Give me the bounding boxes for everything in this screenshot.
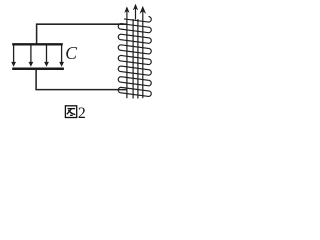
coil field line 2 <box>132 19 134 99</box>
capacitor C top plate <box>12 43 63 45</box>
coil turn 1 <box>124 17 151 23</box>
capacitor C bottom plate <box>12 67 64 70</box>
coil field line middle arrow <box>135 5 137 20</box>
coil turn 3 <box>118 34 151 43</box>
coil field line 4 (with arrow) <box>142 8 144 98</box>
field arrow 1 (down) <box>13 45 15 62</box>
field arrow 4 (down) <box>61 45 63 62</box>
field arrow 2 (down) <box>30 45 32 62</box>
field arrow 3 (down) <box>46 45 48 62</box>
wire top: from capacitor top plate up and right to coil <box>37 24 128 44</box>
coil turn 7 <box>118 77 151 86</box>
caption 图2 : hand-drawn 图 glyph <box>65 106 76 118</box>
svg-text:2: 2 <box>78 105 86 122</box>
coil turn 6 <box>118 66 151 75</box>
coil turn 8 <box>118 87 151 96</box>
svg-text:C: C <box>65 43 77 63</box>
coil turn 4 <box>118 45 151 54</box>
coil field line 3 <box>137 19 139 99</box>
wire bottom: from bottom plate down and right to coil <box>36 70 126 90</box>
coil field line 1 (with arrow) <box>126 8 128 98</box>
coil turn 5 <box>118 55 151 64</box>
coil turn 2 <box>118 24 151 33</box>
